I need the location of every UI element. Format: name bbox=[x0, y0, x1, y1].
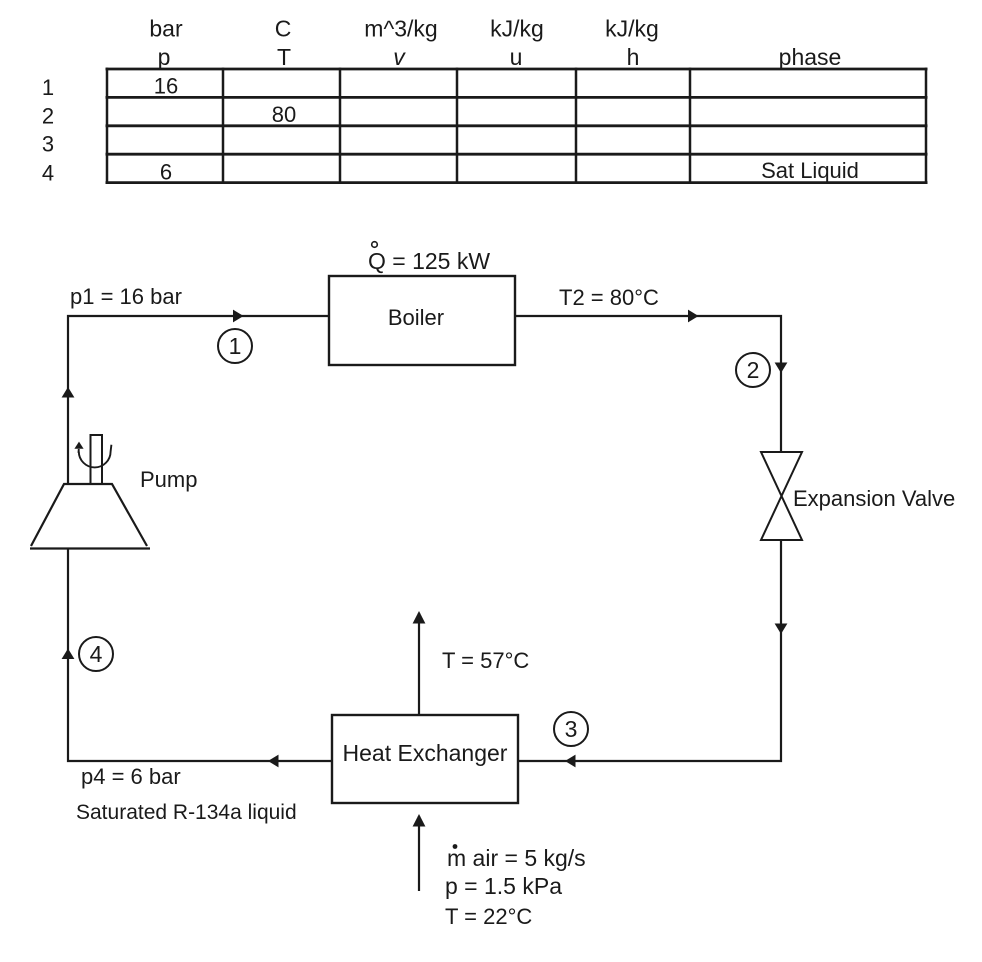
svg-text:m^3/kg: m^3/kg bbox=[364, 16, 437, 42]
svg-text:p: p bbox=[158, 44, 171, 70]
svg-text:Saturated R-134a liquid: Saturated R-134a liquid bbox=[76, 801, 297, 824]
svg-text:phase: phase bbox=[779, 44, 842, 70]
svg-text:Expansion Valve: Expansion Valve bbox=[793, 486, 955, 511]
svg-text:16: 16 bbox=[154, 74, 178, 99]
svg-text:h: h bbox=[627, 44, 640, 70]
svg-text:T = 57°C: T = 57°C bbox=[442, 648, 529, 673]
svg-text:C: C bbox=[275, 16, 292, 42]
svg-text:4: 4 bbox=[90, 641, 103, 667]
svg-text:4: 4 bbox=[42, 161, 54, 186]
svg-text:Pump: Pump bbox=[140, 467, 197, 492]
svg-text:u: u bbox=[510, 44, 523, 70]
svg-text:6: 6 bbox=[160, 160, 172, 185]
svg-text:v: v bbox=[393, 44, 406, 70]
svg-text:2: 2 bbox=[42, 104, 54, 129]
svg-text:Boiler: Boiler bbox=[388, 305, 444, 330]
svg-text:bar: bar bbox=[149, 16, 183, 42]
svg-text:1: 1 bbox=[229, 333, 242, 359]
svg-text:2: 2 bbox=[747, 357, 760, 383]
svg-text:T: T bbox=[277, 44, 291, 70]
svg-text:p1 = 16 bar: p1 = 16 bar bbox=[70, 284, 182, 309]
svg-text:3: 3 bbox=[42, 132, 54, 157]
svg-text:m air = 5 kg/s: m air = 5 kg/s bbox=[447, 845, 586, 871]
svg-text:Heat Exchanger: Heat Exchanger bbox=[343, 740, 508, 766]
svg-text:p = 1.5 kPa: p = 1.5 kPa bbox=[445, 873, 562, 899]
svg-text:80: 80 bbox=[272, 102, 296, 127]
svg-text:Sat Liquid: Sat Liquid bbox=[761, 158, 859, 183]
svg-text:3: 3 bbox=[565, 716, 578, 742]
svg-text:T2 = 80°C: T2 = 80°C bbox=[559, 285, 659, 310]
svg-text:p4 = 6 bar: p4 = 6 bar bbox=[81, 764, 181, 789]
svg-text:Q = 125 kW: Q = 125 kW bbox=[368, 248, 490, 274]
svg-text:T = 22°C: T = 22°C bbox=[445, 904, 532, 929]
svg-text:1: 1 bbox=[42, 75, 54, 100]
svg-text:kJ/kg: kJ/kg bbox=[490, 16, 544, 42]
svg-text:kJ/kg: kJ/kg bbox=[605, 16, 659, 42]
